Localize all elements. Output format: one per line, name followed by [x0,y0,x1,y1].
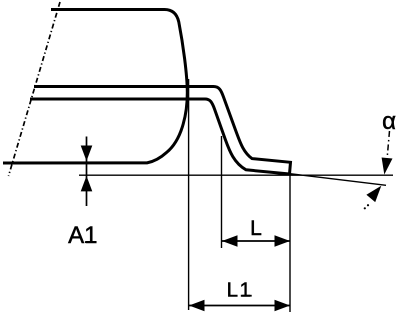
svg-text:L1: L1 [227,279,253,302]
svg-text:A1: A1 [68,222,97,249]
svg-text:L: L [250,217,262,240]
svg-text:α: α [382,108,396,135]
